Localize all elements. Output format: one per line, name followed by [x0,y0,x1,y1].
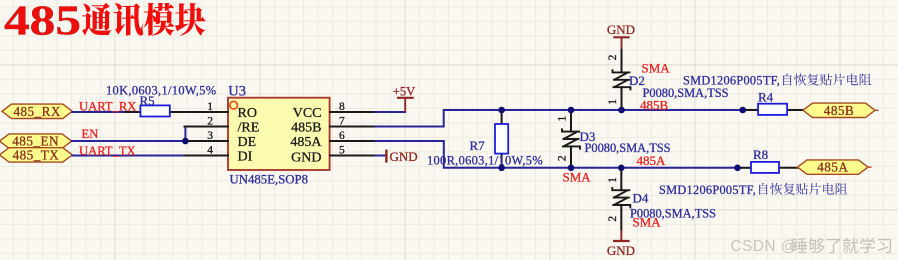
diode D2 pins [621,50,623,73]
resistor R7 pins [501,110,503,124]
title CJK 通讯模块 [82,3,205,36]
pin 7 line [330,126,374,128]
svg-text:CSDN @: CSDN @ [731,238,797,255]
svg-text:485: 485 [4,0,81,44]
svg-text:SMA: SMA [563,169,592,184]
resistor R4 body [758,104,787,115]
svg-text:1: 1 [607,177,619,183]
svg-text:GND: GND [390,149,418,164]
wire pin8 to +5V [374,111,406,113]
svg-text:4: 4 [207,144,213,156]
svg-text:/RE: /RE [238,121,260,136]
svg-text:485A: 485A [637,153,667,168]
svg-text:485_EN: 485_EN [12,134,59,149]
svg-text:6: 6 [339,130,345,142]
port 485_EN [0,134,72,148]
U3 designator dot [230,101,238,109]
svg-text:2: 2 [557,155,569,161]
svg-text:GND: GND [607,22,635,37]
svg-text:485A: 485A [290,135,322,150]
svg-text:485_TX: 485_TX [13,148,60,163]
svg-text:SMA: SMA [633,215,662,230]
diode D4 pins [620,168,622,190]
svg-text:DI: DI [238,150,253,165]
pin 5 line [330,155,374,157]
svg-text:UN485E,SOP8: UN485E,SOP8 [230,173,309,187]
junction [568,165,575,172]
svg-text:GND: GND [607,243,635,258]
svg-text:485B: 485B [640,97,669,112]
svg-text:EN: EN [82,127,99,141]
power GND top [613,36,629,38]
wire 485A rail [374,141,738,168]
resistor R4 pins [743,109,758,111]
svg-text:SMD1206P005TF,: SMD1206P005TF, [659,183,756,197]
port 485_RX [2,104,72,118]
svg-text:2: 2 [207,115,213,127]
svg-text:RO: RO [238,106,257,121]
junction [182,138,189,145]
power GND pin5 [385,150,387,163]
junction [734,165,741,172]
diode D3 pins [570,110,572,132]
wire EN net [72,140,185,142]
svg-text:10K,0603,1/10W,5%: 10K,0603,1/10W,5% [106,83,216,97]
junction [618,165,625,172]
svg-text:U3: U3 [228,84,246,100]
diode D3 symbol [562,128,580,149]
svg-text:VCC: VCC [293,106,322,121]
pin 2 line [185,126,229,128]
wire 485B rail [374,110,743,127]
op-amp/chip U3 body [228,98,330,170]
junction [739,107,746,114]
svg-text:2: 2 [607,216,619,222]
junction [568,107,575,114]
svg-text:8: 8 [339,101,345,113]
svg-text:GND: GND [291,151,321,166]
wire riser RE/DE tie [184,127,186,142]
diode D4 symbol [612,187,630,208]
svg-text:UART_TX: UART_TX [79,144,136,158]
svg-text:SMD1206P005TF,: SMD1206P005TF, [683,74,780,88]
junction [618,107,625,114]
pin 3 line [185,140,229,142]
svg-text:7: 7 [339,115,345,127]
svg-text:5: 5 [339,144,345,156]
svg-text:R4: R4 [758,89,774,104]
port 485A [798,160,869,174]
svg-text:UART_RX: UART_RX [79,99,136,113]
pin 1 line [185,111,229,113]
svg-text:485A: 485A [817,160,848,175]
resistor R8 body [751,162,779,173]
svg-text:DE: DE [238,135,257,150]
junction [498,107,505,114]
resistor R7 body [495,124,508,154]
port 485B [803,103,875,117]
port 485_TX [0,148,72,162]
svg-text:3: 3 [207,130,213,142]
svg-text:D4: D4 [633,191,649,206]
svg-text:R8: R8 [753,147,768,162]
power +5V [397,98,414,112]
wire 485_RX to R5 [72,111,140,113]
svg-text:SMA: SMA [642,60,671,75]
pin 4 line [185,155,229,157]
svg-text:485B: 485B [824,103,854,118]
power GND bottom [613,240,630,242]
diode D2 symbol [613,69,631,90]
svg-text:+5V: +5V [393,84,416,98]
wire UART_TX [72,155,184,157]
resistor R8 pins [738,167,752,169]
svg-text:485B: 485B [291,121,321,136]
junction [498,165,505,172]
svg-text:R7: R7 [470,138,486,153]
svg-text:2: 2 [607,54,619,60]
svg-text:100R,0603,1/10W,5%: 100R,0603,1/10W,5% [427,153,543,167]
wire pin5 to GND [374,155,386,157]
svg-text:1: 1 [557,115,569,121]
svg-text:1: 1 [607,99,619,105]
svg-text:485_RX: 485_RX [13,104,60,119]
resistor R5 pins [125,111,140,113]
pin 6 line [330,140,374,142]
resistor R5 body [140,105,169,116]
pin 8 line [330,111,374,113]
